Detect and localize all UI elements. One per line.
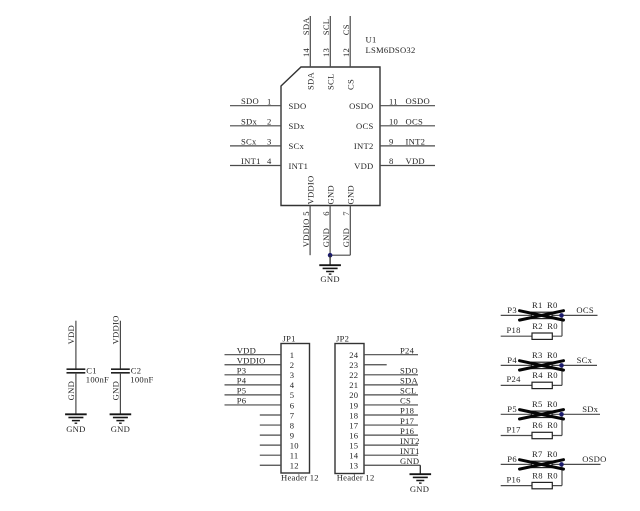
svg-text:R0: R0 xyxy=(547,449,558,459)
svg-text:P18: P18 xyxy=(400,406,414,416)
svg-text:24: 24 xyxy=(349,350,359,360)
svg-text:P3: P3 xyxy=(237,366,247,376)
svg-text:5: 5 xyxy=(301,211,311,216)
svg-text:SCL: SCL xyxy=(326,73,336,90)
svg-text:P4: P4 xyxy=(507,355,517,365)
svg-text:INT1: INT1 xyxy=(400,446,420,456)
svg-text:R0: R0 xyxy=(547,300,558,310)
svg-text:GND: GND xyxy=(320,274,339,284)
svg-text:R6: R6 xyxy=(532,420,543,430)
svg-text:P17: P17 xyxy=(400,416,415,426)
svg-text:SDx: SDx xyxy=(241,116,257,126)
svg-text:OSDO: OSDO xyxy=(406,96,430,106)
svg-text:SDO: SDO xyxy=(241,96,259,106)
svg-text:13: 13 xyxy=(321,48,331,57)
svg-text:R0: R0 xyxy=(547,399,558,409)
svg-text:GND: GND xyxy=(346,185,356,204)
svg-text:SDA: SDA xyxy=(400,376,418,386)
svg-text:OSDO: OSDO xyxy=(349,101,373,111)
svg-text:17: 17 xyxy=(349,420,359,430)
svg-text:SCL: SCL xyxy=(321,19,331,36)
svg-text:7: 7 xyxy=(341,211,351,216)
svg-text:OCS: OCS xyxy=(356,121,373,131)
svg-text:R0: R0 xyxy=(547,470,558,480)
svg-text:Header 12: Header 12 xyxy=(337,472,375,482)
svg-text:12: 12 xyxy=(341,48,351,57)
svg-text:11: 11 xyxy=(389,96,398,106)
svg-text:CS: CS xyxy=(341,24,351,35)
svg-text:R2: R2 xyxy=(532,321,543,331)
svg-text:R1: R1 xyxy=(532,300,543,310)
svg-text:GND: GND xyxy=(321,228,331,247)
svg-text:P5: P5 xyxy=(507,404,517,414)
svg-text:7: 7 xyxy=(290,410,295,420)
svg-text:21: 21 xyxy=(349,380,358,390)
svg-text:R5: R5 xyxy=(532,399,543,409)
svg-text:P16: P16 xyxy=(400,426,415,436)
svg-text:P24: P24 xyxy=(400,345,415,355)
svg-text:9: 9 xyxy=(389,137,394,147)
svg-text:P18: P18 xyxy=(507,325,521,335)
svg-text:VDD: VDD xyxy=(406,156,425,166)
svg-text:VDDIO: VDDIO xyxy=(301,218,311,247)
svg-text:11: 11 xyxy=(290,451,299,461)
svg-text:23: 23 xyxy=(349,360,358,370)
svg-text:GND: GND xyxy=(66,381,76,400)
svg-text:SCx: SCx xyxy=(289,141,305,151)
svg-text:R4: R4 xyxy=(532,370,543,380)
svg-text:GND: GND xyxy=(111,424,130,434)
svg-text:OCS: OCS xyxy=(576,305,593,315)
svg-text:R8: R8 xyxy=(532,470,543,480)
svg-text:P16: P16 xyxy=(507,474,522,484)
svg-text:SDA: SDA xyxy=(306,72,316,90)
svg-text:10: 10 xyxy=(389,117,398,127)
svg-text:2: 2 xyxy=(290,360,295,370)
svg-text:GND: GND xyxy=(325,185,335,204)
svg-text:3: 3 xyxy=(267,137,272,147)
svg-text:4: 4 xyxy=(267,156,272,166)
svg-text:SCx: SCx xyxy=(241,136,257,146)
svg-text:R0: R0 xyxy=(547,321,558,331)
svg-text:SDA: SDA xyxy=(301,17,311,35)
svg-text:GND: GND xyxy=(66,424,85,434)
svg-text:15: 15 xyxy=(349,440,358,450)
svg-text:CS: CS xyxy=(400,396,411,406)
svg-text:R3: R3 xyxy=(532,350,543,360)
svg-text:16: 16 xyxy=(349,430,359,440)
svg-text:R7: R7 xyxy=(532,449,543,459)
svg-text:VDDIO: VDDIO xyxy=(237,355,266,365)
svg-text:2: 2 xyxy=(267,117,272,127)
svg-text:13: 13 xyxy=(349,461,358,471)
svg-text:P3: P3 xyxy=(507,305,517,315)
svg-text:GND: GND xyxy=(410,484,429,494)
svg-text:20: 20 xyxy=(349,390,358,400)
svg-text:OSDO: OSDO xyxy=(582,454,606,464)
svg-text:5: 5 xyxy=(290,390,295,400)
svg-text:SCL: SCL xyxy=(400,386,417,396)
svg-text:P5: P5 xyxy=(237,386,247,396)
svg-text:19: 19 xyxy=(349,400,358,410)
svg-text:100nF: 100nF xyxy=(130,374,153,384)
svg-text:Header 12: Header 12 xyxy=(281,472,319,482)
svg-text:VDD: VDD xyxy=(237,345,256,355)
svg-text:P17: P17 xyxy=(507,424,522,434)
svg-text:GND: GND xyxy=(400,456,419,466)
svg-text:OCS: OCS xyxy=(406,116,423,126)
svg-text:R0: R0 xyxy=(547,420,558,430)
svg-text:10: 10 xyxy=(290,440,299,450)
svg-text:P6: P6 xyxy=(237,396,247,406)
svg-text:R0: R0 xyxy=(547,350,558,360)
svg-text:VDD: VDD xyxy=(354,161,373,171)
svg-text:SDx: SDx xyxy=(289,121,305,131)
svg-text:18: 18 xyxy=(349,410,358,420)
svg-text:14: 14 xyxy=(349,451,359,461)
svg-text:22: 22 xyxy=(349,370,358,380)
svg-text:9: 9 xyxy=(290,430,295,440)
svg-text:INT1: INT1 xyxy=(289,161,309,171)
svg-text:8: 8 xyxy=(389,156,394,166)
svg-text:JP1: JP1 xyxy=(283,333,296,343)
svg-text:SDO: SDO xyxy=(289,101,307,111)
svg-text:GND: GND xyxy=(111,381,121,400)
svg-text:3: 3 xyxy=(290,370,295,380)
svg-text:P4: P4 xyxy=(237,376,247,386)
svg-text:CS: CS xyxy=(346,79,356,90)
svg-text:SDO: SDO xyxy=(400,366,418,376)
svg-text:14: 14 xyxy=(301,47,311,57)
svg-text:P24: P24 xyxy=(507,374,522,384)
svg-text:1: 1 xyxy=(290,350,295,360)
svg-text:INT2: INT2 xyxy=(354,141,374,151)
svg-text:VDDIO: VDDIO xyxy=(305,176,315,205)
svg-text:INT1: INT1 xyxy=(241,156,261,166)
svg-text:4: 4 xyxy=(290,380,295,390)
svg-text:VDD: VDD xyxy=(66,325,76,344)
svg-text:INT2: INT2 xyxy=(400,436,420,446)
svg-text:VDDIO: VDDIO xyxy=(111,315,121,344)
svg-text:JP2: JP2 xyxy=(336,333,349,343)
svg-text:SCx: SCx xyxy=(577,355,593,365)
svg-text:12: 12 xyxy=(290,461,299,471)
svg-text:6: 6 xyxy=(290,400,295,410)
svg-text:GND: GND xyxy=(341,228,351,247)
svg-text:P6: P6 xyxy=(507,454,517,464)
svg-text:R0: R0 xyxy=(547,370,558,380)
svg-text:LSM6DSO32: LSM6DSO32 xyxy=(366,45,416,55)
svg-text:INT2: INT2 xyxy=(406,136,426,146)
svg-text:8: 8 xyxy=(290,420,295,430)
svg-text:U1: U1 xyxy=(366,35,377,45)
svg-text:6: 6 xyxy=(321,211,331,216)
svg-text:1: 1 xyxy=(267,96,272,106)
svg-text:SDx: SDx xyxy=(582,404,598,414)
svg-text:100nF: 100nF xyxy=(86,374,109,384)
